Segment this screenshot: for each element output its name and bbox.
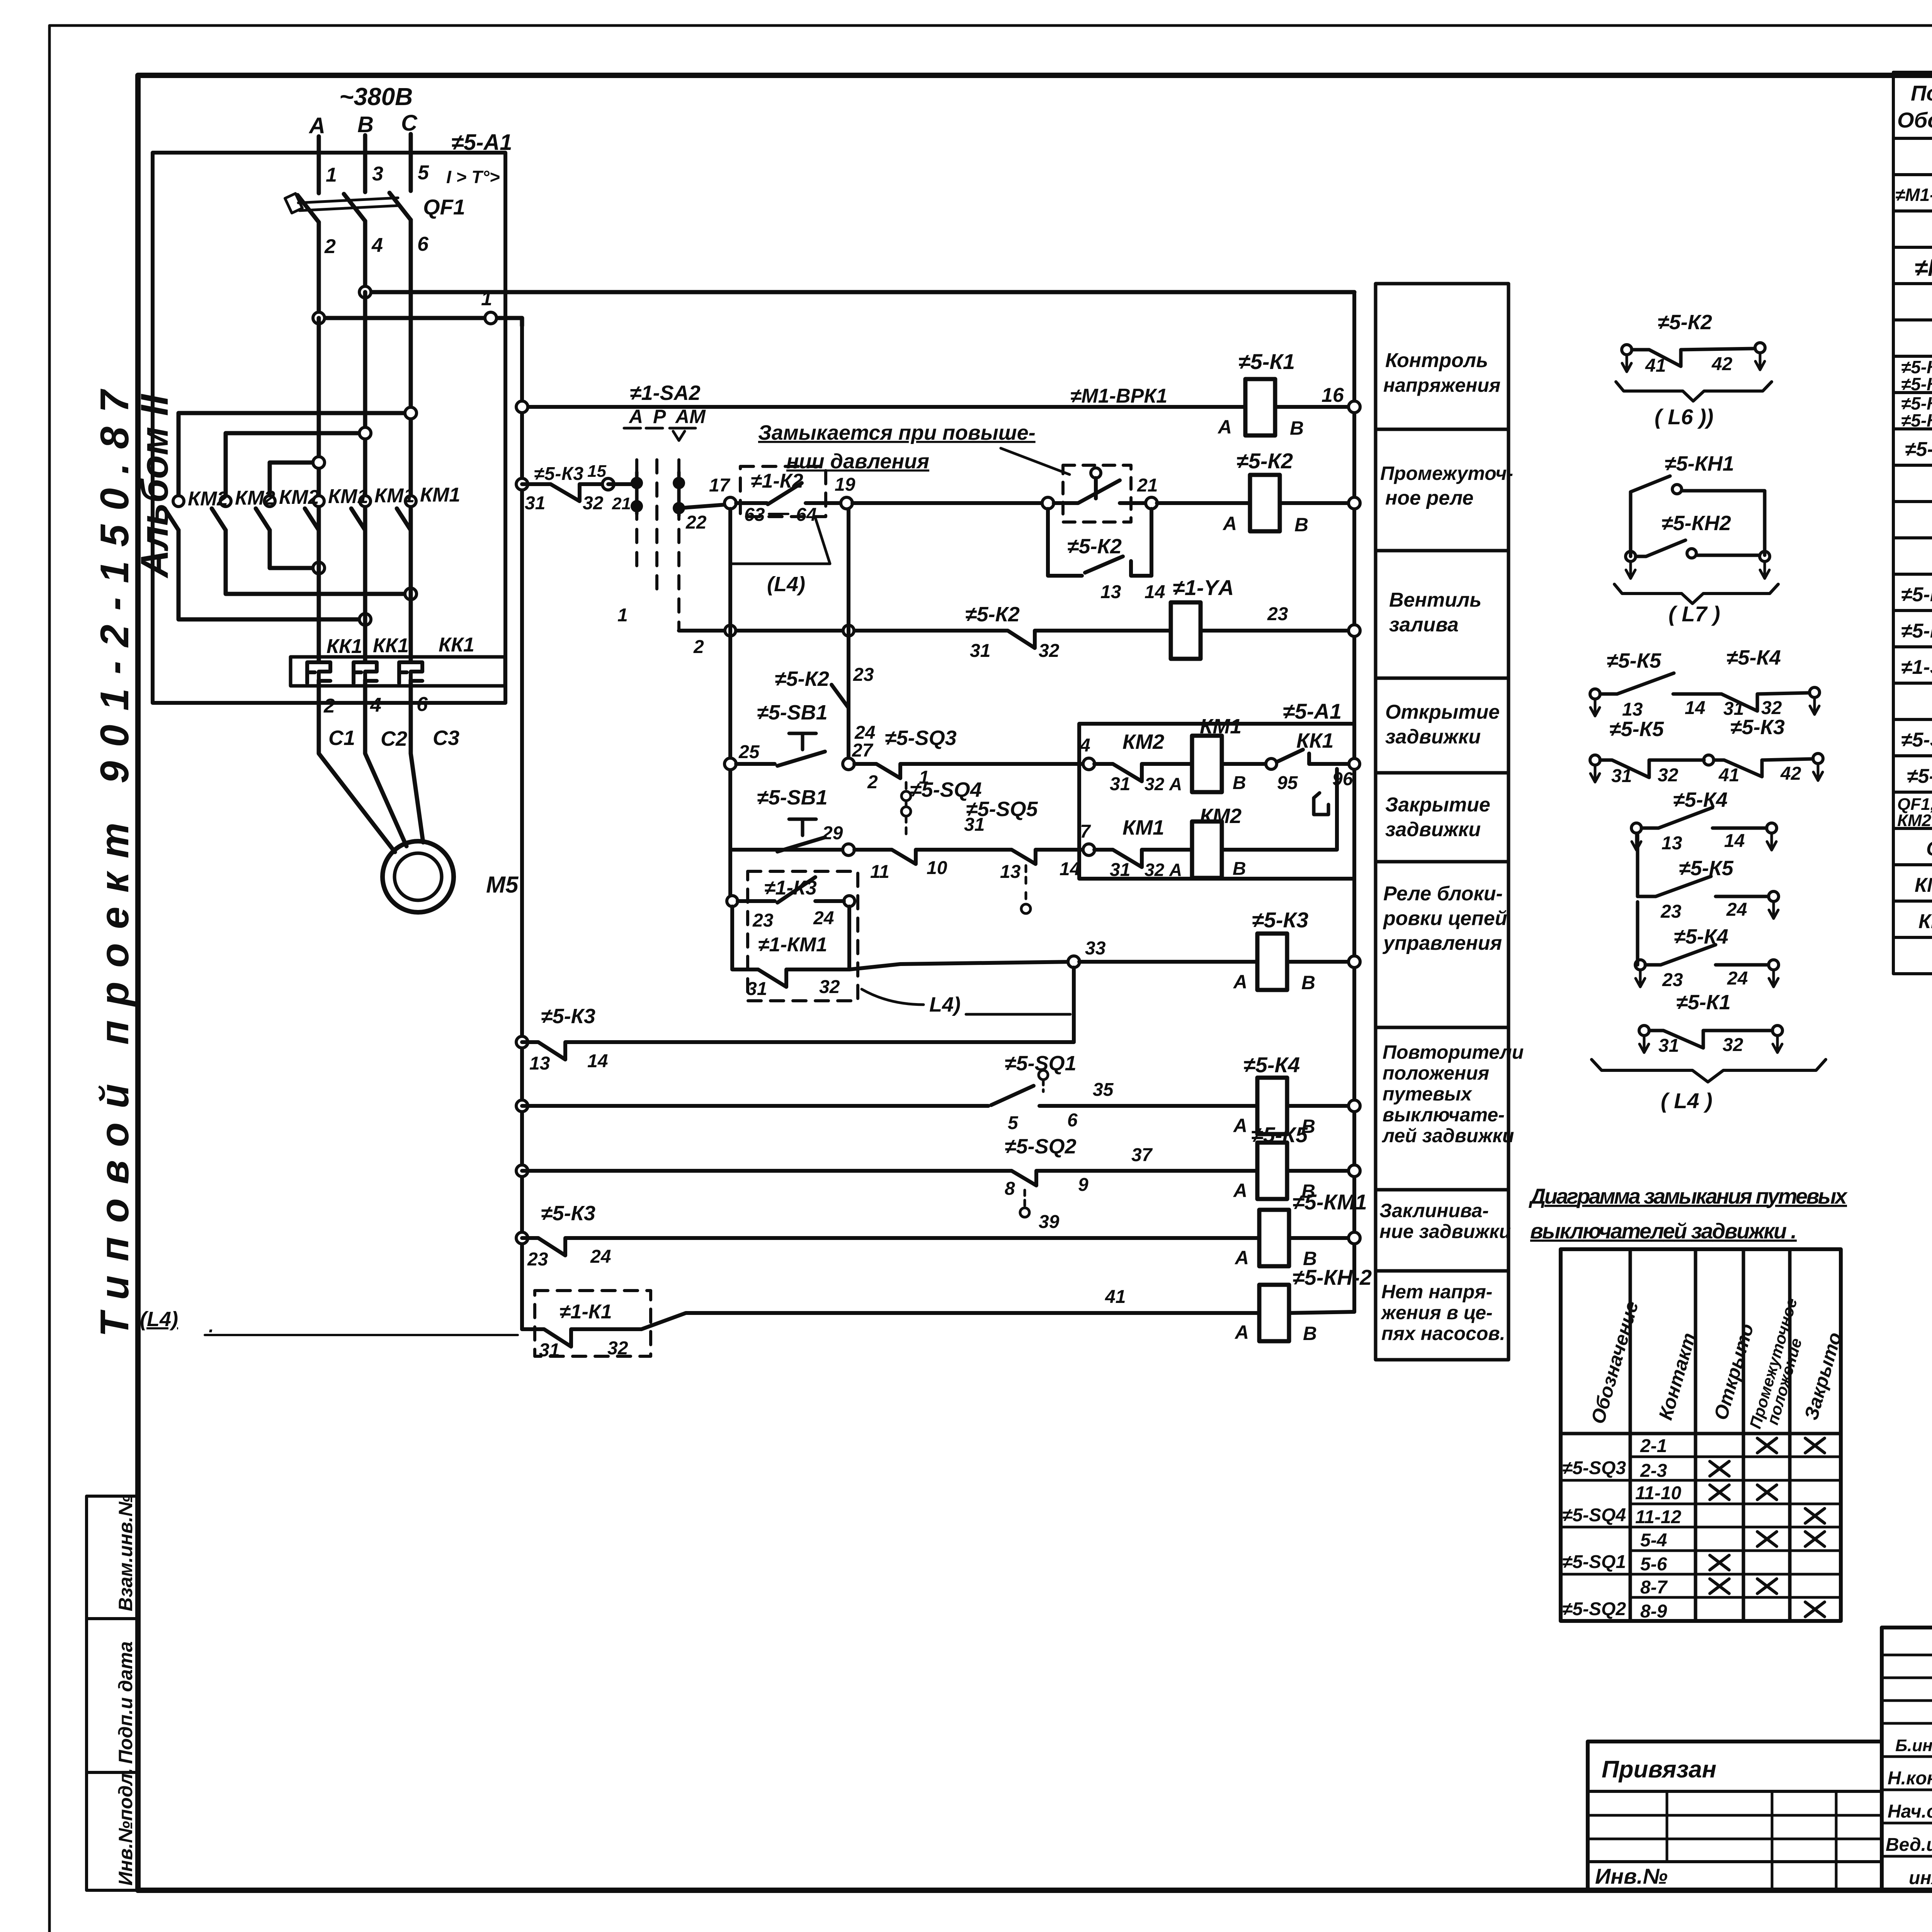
node 21 [1146,497,1157,509]
corner to closing rung / button SB1 lower [730,848,843,852]
svg-text:задвижки: задвижки [1385,818,1481,841]
svg-text:В: В [1233,773,1246,793]
svg-text:≠1-К1: ≠1-К1 [560,1301,612,1323]
node 7 [1083,844,1095,855]
svg-text:А: А [1234,1247,1249,1269]
signature table [1882,1628,1932,1890]
rung SQ1 - K4 [516,1100,528,1112]
svg-text:14: 14 [1685,698,1705,718]
wire from B phase to right control bus [365,290,1354,294]
wire 1 from A phase to left control bus [319,318,522,326]
phase C continues down to KM1 terminal [409,220,413,499]
svg-text:63: 63 [744,505,765,525]
svg-text:13: 13 [529,1053,550,1074]
contact K2 31-32 [997,631,1061,648]
svg-text:17: 17 [709,475,731,496]
svg-text:≠5-К3: ≠5-К3 [541,1005,595,1028]
heater element 1 [307,662,330,683]
node on B phase [359,286,371,298]
svg-text:Инв.№: Инв.№ [1595,1864,1668,1888]
svg-text:≠5-К5: ≠5-К5 [1607,649,1662,672]
svg-text:2-1: 2-1 [1640,1436,1667,1456]
phase B continues down [363,221,367,590]
Диаграмма title [1529,1184,1848,1243]
svg-text:10: 10 [927,858,947,878]
svg-text:КМ2: КМ2 [1122,730,1164,753]
svg-text:выключателей задвижки .: выключателей задвижки . [1530,1219,1797,1243]
svg-text:жения в це-: жения в це- [1380,1302,1493,1323]
svg-text:С: С [401,111,418,136]
svg-text:14: 14 [1145,582,1165,602]
svg-text:33: 33 [1085,938,1106,959]
KM2 output wire 2 to phase-C output [226,530,411,594]
svg-text:13: 13 [1662,833,1682,854]
svg-text:(L4): (L4) [767,573,805,596]
svg-text:≠1-КМ1: ≠1-КМ1 [758,934,827,956]
svg-text:КМ1: КМ1 [374,485,415,507]
svg-text:8: 8 [1005,1179,1015,1199]
svg-text:1: 1 [481,287,492,310]
svg-text:Инв.№подл.: Инв.№подл. [115,1768,136,1886]
svg-text:14: 14 [587,1051,608,1071]
dashed box 1-K3 / 1-KM1 [748,871,858,1001]
svg-text:≠5-КН2: ≠5-КН2 [1901,620,1932,642]
svg-text:≠5-SQ4: ≠5-SQ4 [1562,1505,1626,1526]
svg-text:КК1: КК1 [439,634,474,656]
svg-text:23: 23 [1662,970,1683,990]
svg-text:23: 23 [752,910,774,931]
svg-text:В: В [1290,417,1304,439]
KK1 thermal relay box [291,657,505,686]
svg-text:21: 21 [1137,475,1158,496]
svg-text:11: 11 [870,862,889,882]
svg-text:6: 6 [1067,1110,1078,1131]
svg-text:31: 31 [525,493,545,514]
svg-text:управления: управления [1382,932,1502,954]
node 4 [1083,758,1095,770]
svg-text:≠5-SВ1: ≠5-SВ1 [1901,729,1932,751]
svg-text:≠5-КН2: ≠5-КН2 [1662,512,1731,535]
svg-text:5: 5 [1008,1113,1019,1133]
right control bus [1352,292,1356,1312]
node 1 circle [485,312,497,324]
svg-text:Контроль: Контроль [1385,349,1488,372]
svg-text:≠5-К4: ≠5-К4 [1243,1053,1300,1077]
node 29 [843,844,854,855]
svg-text:А: А [308,113,325,138]
svg-text:11-12: 11-12 [1635,1507,1682,1527]
svg-text:Реле блоки-: Реле блоки- [1383,883,1503,905]
svg-text:23: 23 [853,665,874,685]
svg-text:23: 23 [1267,604,1288,624]
svg-text:Диаграмма замыкания путевых: Диаграмма замыкания путевых [1529,1184,1848,1208]
L4 leader [862,989,923,1005]
contact 1-K3 23-24 [727,896,738,906]
svg-text:23: 23 [527,1249,548,1270]
svg-text:≠5-К3: ≠5-К3 [1730,716,1785,739]
svg-text:≠5-К2: ≠5-К2 [775,667,829,690]
svg-text:32 А: 32 А [1145,860,1182,880]
svg-text:Замыкается при повыше-: Замыкается при повыше- [758,421,1036,444]
svg-text:≠5-КН1: ≠5-КН1 [1901,583,1932,606]
rung2 left: contact K3 31-15-32 [516,478,528,490]
svg-text:залива: залива [1389,614,1459,636]
svg-text:положения: положения [1383,1062,1489,1084]
svg-text:≠5-SQ2: ≠5-SQ2 [1562,1599,1626,1619]
svg-text:КК1: КК1 [1918,910,1932,933]
svg-text:32: 32 [607,1338,628,1359]
svg-text:31: 31 [1110,774,1130,794]
svg-text:QF1: QF1 [423,195,465,219]
vertical from node19 down to node27 with K2 contact [847,509,850,764]
svg-text:А: А [1217,416,1232,438]
svg-text:лей задвижки: лей задвижки [1382,1125,1514,1146]
motor feed lines below box [319,680,395,852]
heater element 2 [354,662,377,683]
svg-text:≠5-К5: ≠5-К5 [1251,1122,1308,1147]
svg-text:Взам.инв.№: Взам.инв.№ [115,1495,136,1611]
node 19 [841,497,852,509]
svg-text:≠5-А1: ≠5-А1 [451,130,512,155]
svg-text:Заклинива-: Заклинива- [1379,1200,1489,1221]
svg-text:22: 22 [685,512,707,533]
svg-text:КК1: КК1 [327,635,362,658]
phase line C [409,134,413,191]
svg-text:АМ: АМ [675,406,706,427]
svg-text:32: 32 [583,493,604,514]
svg-text:≠5-К3: ≠5-К3 [541,1202,595,1225]
svg-text:32: 32 [819,977,840,997]
svg-text:≠5-К2: ≠5-К2 [1905,438,1932,461]
svg-text:5-6: 5-6 [1640,1554,1667,1575]
vertical V1 from node17 down [728,509,732,901]
svg-text:I > T°>: I > T°> [446,167,500,187]
svg-text:19: 19 [835,474,855,495]
svg-text:QF1: QF1 [1926,838,1932,860]
svg-text:( L6 )): ( L6 )) [1655,405,1713,429]
svg-text:Повторители: Повторители [1383,1041,1524,1063]
svg-text:≠5-SQ3: ≠5-SQ3 [885,726,957,750]
svg-text:≠1-SА2: ≠1-SА2 [630,381,701,405]
svg-text:≠5-К5: ≠5-К5 [1901,410,1932,430]
svg-text:31: 31 [970,641,990,661]
svg-text:2: 2 [867,772,878,793]
svg-text:≠М1-ВРК1: ≠М1-ВРК1 [1070,385,1167,407]
svg-text:2: 2 [324,235,336,258]
svg-text:31: 31 [1658,1036,1679,1056]
svg-text:32: 32 [1658,765,1679,786]
svg-text:13: 13 [1000,862,1021,882]
svg-text:24: 24 [1726,900,1747,920]
svg-text:( L7 ): ( L7 ) [1668,602,1720,626]
coil K3 [1079,960,1354,964]
svg-text:А: А [1222,513,1237,534]
svg-text:2-3: 2-3 [1640,1461,1667,1481]
stair feed wire KM2 leg2 from phase B [226,433,365,495]
coil K2 [1157,501,1354,505]
brace L6 [1616,382,1772,401]
svg-text:≠5-К1: ≠5-К1 [1676,991,1731,1014]
svg-text:41: 41 [1718,765,1739,786]
svg-text:23: 23 [1660,901,1682,922]
svg-text:Нач.отд.: Нач.отд. [1888,1801,1932,1822]
svg-text:5-4: 5-4 [1640,1530,1667,1551]
svg-text:24: 24 [590,1247,611,1267]
svg-text:В: В [1233,859,1246,879]
svg-text:31: 31 [1611,766,1632,786]
svg-text:В: В [1294,514,1308,536]
valve coil 1-YA [1171,602,1201,659]
rung3 (valve) wire [679,629,1354,633]
svg-text:Вед.инж.: Вед.инж. [1886,1835,1932,1855]
rung 1-K1 31-32 - KH-2 relay [535,1291,651,1356]
svg-text:24: 24 [1727,968,1748,989]
heater element 3 [399,662,422,683]
wire to SA2 [608,482,637,486]
SQ3-SQ4 linkage [901,791,911,801]
svg-text:Промежуточ-: Промежуточ- [1380,463,1513,484]
phase line B [363,135,367,192]
svg-text:7: 7 [1080,821,1091,842]
SQ5 linkage [1025,866,1027,904]
svg-text:Привязан: Привязан [1602,1756,1716,1783]
blocking relay rung to node 33 [849,962,1074,969]
svg-text:32: 32 [1723,1035,1743,1055]
left control bus [520,326,524,1329]
phase A continues down [317,222,321,612]
svg-text:2: 2 [323,695,335,717]
svg-text:задвижки: задвижки [1385,726,1481,748]
contactor blades KM2-1..KM1-3 [165,509,179,530]
svg-text:≠5-К4: ≠5-К4 [1674,925,1728,948]
node 33 [1068,956,1080,968]
svg-text:нии давления: нии давления [786,450,929,473]
svg-text:≠5-SQ2: ≠5-SQ2 [1005,1135,1077,1158]
svg-text:≠5-К4: ≠5-К4 [1673,788,1728,811]
svg-text:L4): L4) [929,993,961,1016]
svg-text:6: 6 [417,233,429,255]
phase B continues down to KM1 terminal [363,292,367,499]
Привязан table [1588,1742,1882,1890]
rung K3 13-14 [516,1036,528,1048]
rung K3 23-24 - KM1 relay [516,1232,528,1244]
svg-text:5: 5 [418,162,429,184]
svg-text:13: 13 [1622,699,1643,720]
svg-text:42: 42 [1780,764,1801,784]
svg-text:8-7: 8-7 [1640,1577,1668,1598]
svg-text:≠М1-ВРК1: ≠М1-ВРК1 [1895,185,1932,205]
svg-text:~380В: ~380В [339,83,413,111]
svg-text:КМ2: КМ2 [279,486,319,509]
svg-text:≠5-SВ1: ≠5-SВ1 [757,786,828,809]
contact 1-K2 63-64 in dashed box [740,466,826,517]
svg-text:≠5-КМ1: ≠5-КМ1 [1293,1190,1367,1214]
svg-text:КМ2 КК1: КМ2 КК1 [1897,811,1932,830]
node on A phase [313,312,325,324]
svg-text:≠5-А1...: ≠5-А1... [1907,765,1932,787]
svg-text:≠5-К2: ≠5-К2 [1236,449,1293,473]
svg-text:ние задвижки: ние задвижки [1379,1221,1511,1242]
brace L7 [1614,584,1778,604]
KM2 output wire 3 to phase-A output [270,530,319,568]
svg-text:25: 25 [738,742,760,762]
svg-text:≠5-SQ1: ≠5-SQ1 [1562,1552,1626,1572]
svg-text:21: 21 [612,494,631,513]
svg-text:9: 9 [1078,1175,1088,1195]
svg-text:15: 15 [587,462,606,481]
rung1 wire K1 [522,405,1354,409]
svg-text:КК1: КК1 [373,634,409,657]
svg-text:Вентиль: Вентиль [1389,589,1481,611]
phase line A [317,136,321,193]
svg-text:41: 41 [1645,355,1666,376]
svg-text:≠5-К4: ≠5-К4 [1726,646,1781,669]
svg-text:КМ2: КМ2 [235,487,275,509]
node 25 [724,758,736,770]
svg-text:С2: С2 [381,727,407,750]
node 17 [724,497,736,509]
svg-text:37: 37 [1131,1145,1153,1165]
svg-text:Р: Р [653,406,666,427]
svg-text:≠5-К3: ≠5-К3 [1901,374,1932,394]
svg-text:Обозначен.: Обозначен. [1897,108,1932,132]
svg-text:6: 6 [417,693,428,716]
svg-text:≠5-К2: ≠5-К2 [1067,535,1122,558]
svg-text:В: В [1301,972,1315,993]
svg-text:42: 42 [1711,354,1733,374]
svg-text:1: 1 [617,605,628,626]
svg-text:≠5-К3: ≠5-К3 [1252,908,1308,932]
svg-text:≠5-А1: ≠5-А1 [1283,699,1342,723]
svg-text:8-9: 8-9 [1640,1601,1667,1622]
svg-text:1: 1 [326,164,337,186]
svg-text:≠М5: ≠М5 [1915,255,1932,281]
wire 22 to node 17 [679,504,730,508]
svg-text:64: 64 [796,505,816,525]
svg-text:инж.: инж. [1909,1868,1932,1888]
svg-text:35: 35 [1093,1080,1114,1100]
svg-text:32: 32 [1039,641,1060,661]
svg-text:путевых: путевых [1383,1083,1473,1105]
svg-text:29: 29 [822,823,843,844]
svg-text:Б.инж.пр: Б.инж.пр [1895,1736,1932,1755]
svg-text:А: А [1233,1180,1247,1201]
svg-text:А: А [1233,971,1247,993]
motor M5 [383,841,454,912]
svg-text:Закрытие: Закрытие [1385,794,1490,816]
svg-text:≠5-SQ3: ≠5-SQ3 [1562,1458,1626,1478]
left stamp boxes [87,1496,138,1619]
svg-text:КМ1: КМ1 [1122,816,1164,839]
svg-text:≠5-КН1: ≠5-КН1 [1665,452,1734,475]
svg-text:≠5-К2: ≠5-К2 [965,603,1020,626]
svg-text:Нет напря-: Нет напря- [1381,1281,1492,1303]
svg-text:≠5-К1: ≠5-К1 [1238,349,1295,374]
svg-text:4: 4 [371,234,383,257]
stair feed wire KM2 leg3 from phase A [270,463,319,495]
svg-text:Подп.и дата: Подп.и дата [115,1641,136,1764]
relay coil K1 [1245,379,1275,435]
svg-text:≠1-YА: ≠1-YА [1173,575,1234,600]
svg-text:КМ1,2: КМ1,2 [1915,874,1932,896]
svg-text:напряжения: напряжения [1383,374,1500,396]
svg-text:А: А [1233,1115,1247,1136]
block 5-A1 control box [1079,724,1354,879]
power box ≠5-A1 [153,153,505,703]
svg-text:≠5-К2: ≠5-К2 [1658,311,1712,334]
svg-text:27: 27 [852,740,874,761]
svg-text:ровки цепей: ровки цепей [1383,907,1507,930]
svg-text:выключате-: выключате- [1383,1104,1505,1126]
output columns down to KK1 heater box [317,530,321,662]
svg-text:В: В [1303,1323,1317,1344]
big brace L4 [1592,1060,1826,1082]
svg-text:КМ1: КМ1 [328,485,368,508]
svg-text:( L4 ): ( L4 ) [1661,1088,1713,1113]
svg-text:13: 13 [1100,582,1121,602]
pressure switch M1-BPK1 [1063,465,1131,522]
svg-text:Открытие: Открытие [1385,701,1500,723]
contact 1-KM1 31-32 [732,906,849,987]
svg-text:.: . [209,1316,214,1337]
svg-text:(L4): (L4) [140,1308,178,1331]
vertical up to node 33 [1072,968,1076,1042]
svg-text:3: 3 [372,163,383,185]
svg-text:4: 4 [370,694,381,716]
svg-text:≠5-К5: ≠5-К5 [1609,718,1664,741]
svg-text:11-10: 11-10 [1635,1483,1682,1503]
svg-text:95: 95 [1277,773,1298,793]
svg-text:А: А [1234,1321,1249,1343]
svg-text:Н.контр.: Н.контр. [1888,1768,1932,1789]
svg-text:КМ1: КМ1 [420,484,460,506]
svg-text:≠5-SВ1: ≠5-SВ1 [757,701,828,724]
linkage line L4 [731,518,830,564]
KM2 output wire 1 to phase-B output [179,530,365,619]
svg-text:С1: С1 [328,726,355,750]
svg-text:16: 16 [1321,384,1344,406]
node 27 [843,758,854,770]
phase C continues down [409,220,413,566]
svg-text:М5: М5 [486,872,519,898]
stair feed wire KM2 leg1 from phase C [179,413,411,495]
svg-text:31: 31 [747,979,767,999]
svg-text:≠5-КН-2: ≠5-КН-2 [1293,1265,1372,1289]
svg-text:14: 14 [1724,831,1745,851]
svg-text:31: 31 [964,815,985,835]
svg-text:31: 31 [539,1340,560,1361]
svg-text:А: А [628,406,643,427]
svg-text:пях насосов.: пях насосов. [1381,1323,1505,1344]
long wire to BPK1 [852,501,1043,505]
rung SQ2 - K5 [516,1165,528,1177]
svg-text:С3: С3 [433,726,459,750]
contactor terminal circles [173,496,184,507]
svg-text:≠1-SА2: ≠1-SА2 [1901,656,1932,679]
svg-text:Поз.: Поз. [1911,81,1932,105]
svg-text:14: 14 [1060,859,1080,879]
svg-text:2: 2 [693,637,704,657]
svg-text:4: 4 [1080,735,1090,756]
svg-text:24: 24 [813,908,834,929]
svg-text:39: 39 [1039,1212,1060,1232]
svg-text:КМ2: КМ2 [188,488,228,510]
svg-text:32 А: 32 А [1145,774,1182,794]
holding contact K2 13-14 [1048,509,1151,576]
svg-text:ное реле: ное реле [1385,487,1473,509]
svg-text:≠5-К3: ≠5-К3 [534,464,583,484]
phase A continues down to KM1 terminal [317,318,321,499]
